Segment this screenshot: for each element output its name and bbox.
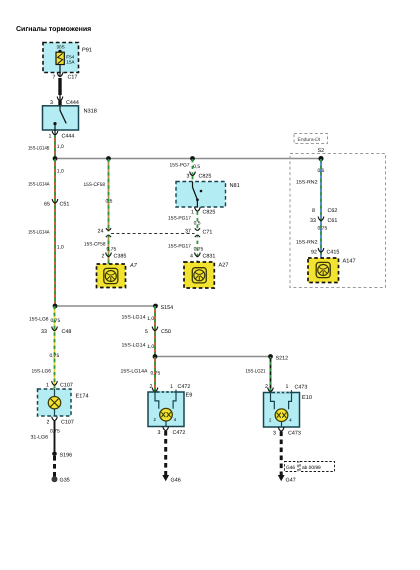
svg-text:0,5: 0,5 [193,164,200,170]
svg-text:1,0: 1,0 [147,344,154,350]
svg-text:33: 33 [41,329,47,335]
connector C107 pin 2 [47,417,74,426]
lamp cluster A27 [184,262,228,288]
note box G46 [285,462,299,472]
svg-text:1: 1 [170,384,173,390]
connector C17 pin 7 [53,73,78,81]
svg-text:C825: C825 [199,174,212,180]
svg-text:0,75: 0,75 [107,247,117,253]
svg-text:E174: E174 [76,394,89,400]
svg-text:1,0: 1,0 [147,316,154,322]
connector C385 pin 2 [102,253,127,260]
connector C71 pin 37 [185,228,212,237]
svg-text:C472: C472 [178,384,191,390]
svg-text:65: 65 [44,202,50,208]
connector C473 pins 2 1 [265,384,307,392]
connector C825 pin 1 [191,207,215,216]
svg-text:C48: C48 [62,329,72,335]
svg-text:15S-LG6: 15S-LG6 [32,369,52,375]
lamp bulb E10 [275,409,288,422]
svg-text:C50: C50 [161,329,171,335]
svg-text:0,75: 0,75 [50,429,60,435]
svg-text:N81: N81 [230,183,240,189]
bus wire 3 [155,356,271,358]
svg-text:Endura-DI: Endura-DI [298,137,321,143]
svg-text:15S-LG14A: 15S-LG14A [28,182,50,188]
svg-text:C473: C473 [295,385,308,391]
node junction PG7 bus1 [190,156,195,161]
connector C444 pin 3 [50,97,79,107]
svg-text:C17: C17 [68,75,78,81]
wire 15S-CF58 upper [84,159,113,232]
svg-text:G46: G46 [171,478,181,484]
node junction left bus2 [53,304,58,309]
node junction left bus1 [53,156,58,161]
svg-text:A7: A7 [129,263,138,269]
svg-text:C51: C51 [60,202,70,208]
svg-text:C831: C831 [203,254,216,260]
svg-text:E10: E10 [302,395,312,401]
svg-text:4: 4 [190,254,193,260]
lamp bulb E174 [48,397,60,409]
node S154 [153,304,173,311]
svg-text:8: 8 [312,208,315,214]
wire 31-LG6 [31,421,60,454]
switch N81 [176,182,240,208]
connector C62 pin 8 / C61 pin 33 [310,208,337,224]
fuse box P91 [43,43,92,73]
svg-text:24: 24 [98,229,104,235]
svg-text:N318: N318 [84,109,97,115]
svg-text:2: 2 [47,420,50,426]
connector C107 pin 1 [46,381,73,389]
wire 15S-PG17 lower [168,236,204,263]
node S196 [52,452,72,459]
svg-text:7: 7 [53,75,56,81]
svg-text:15S-PG7: 15S-PG7 [170,163,190,169]
wire dashed to G35 [53,456,56,477]
node S212 [268,354,288,361]
svg-text:C472: C472 [173,430,186,436]
svg-text:C385: C385 [114,254,127,260]
node junction left bus3 [153,354,158,359]
svg-text:S154: S154 [161,305,174,311]
svg-text:15S-LG21: 15S-LG21 [246,369,266,375]
svg-text:3: 3 [273,431,276,437]
connector C472 pin 3 [158,427,186,437]
svg-text:31-LG6: 31-LG6 [31,435,49,441]
svg-text:1: 1 [286,384,289,390]
lamp cluster A147 [308,258,356,283]
wire 15S-LG6 upper [29,306,60,389]
bus wire 2 [55,305,156,307]
svg-text:A147: A147 [343,259,356,265]
node S2 [318,148,325,161]
svg-text:Сигналы торможения: Сигналы торможения [16,26,91,33]
svg-text:2: 2 [150,384,153,390]
svg-text:30S: 30S [57,45,65,50]
connector C472 pins 2 1 [150,384,191,392]
svg-text:0,5: 0,5 [318,168,325,174]
svg-text:1,0: 1,0 [57,245,64,251]
connector C473 pin 3 [273,427,301,437]
connector C71 pin 24 [98,228,112,237]
svg-text:G47: G47 [286,478,296,484]
wire fuse to C17 [59,65,61,77]
svg-text:15S-LG14B: 15S-LG14B [28,146,50,152]
wire 15S-RN2 [296,159,327,258]
brake lamp E174 [38,389,89,416]
svg-text:0,5: 0,5 [106,199,113,205]
svg-text:S212: S212 [276,356,289,362]
svg-text:C107: C107 [61,420,74,426]
svg-text:C61: C61 [328,218,338,224]
ground G47 [278,475,296,484]
svg-text:5: 5 [145,329,148,335]
wire dashed to G47 [280,432,283,476]
svg-text:0,75: 0,75 [318,226,328,232]
svg-text:15S-LG14A: 15S-LG14A [121,369,149,375]
svg-text:G46: G46 [286,465,295,471]
stop lamp E10 [264,390,312,427]
svg-text:C71: C71 [203,230,213,236]
ground G35 [52,476,70,483]
svg-text:0,5: 0,5 [194,221,201,227]
wire 15S-LG21 [246,357,271,391]
svg-text:0,75: 0,75 [51,318,61,324]
bus wire 1 [55,158,321,160]
svg-text:G35: G35 [60,478,70,484]
wire thick black C17 to C444 [58,78,61,100]
wire thick black C444 to N318 [58,101,61,107]
lamp cluster A7 [97,263,138,288]
connector C444 pin 1 [49,130,75,140]
svg-text:C444: C444 [62,134,75,140]
wire 15S-CF58 lower [84,236,116,265]
svg-text:S196: S196 [60,453,73,459]
connector C831 pin 4 [190,253,215,260]
wire stub C825 to N81 [192,176,194,182]
lamp bulb E9 [160,408,173,421]
connector C415 pin 92 [311,248,339,256]
svg-text:33: 33 [310,218,316,224]
svg-text:15S-PG17: 15S-PG17 [168,244,191,250]
svg-text:E9: E9 [186,393,193,399]
node junction CF58 bus1 [106,156,111,161]
svg-text:3: 3 [187,174,190,180]
svg-text:3: 3 [158,430,161,436]
svg-text:A27: A27 [219,263,229,269]
connector C50 pin 5 [145,327,171,336]
fuse F54 15A [56,52,75,64]
svg-text:2: 2 [265,384,268,390]
svg-text:15S-CF58: 15S-CF58 [84,242,106,248]
svg-text:0,75: 0,75 [50,353,60,359]
wire dashed C71 link [111,232,195,234]
connector C48 pin 33 [41,327,71,336]
brake pedal switch N318 [43,106,97,130]
wire dashed to G46 [164,431,167,475]
svg-text:C62: C62 [328,208,338,214]
svg-text:15S-RN2: 15S-RN2 [296,180,318,186]
note box ab 00/99 [300,462,335,472]
svg-text:1: 1 [191,210,194,216]
svg-text:15S-LG14: 15S-LG14 [122,343,146,349]
svg-text:1: 1 [46,383,49,389]
node fuse top 30S [58,50,61,53]
svg-text:15S-CF58: 15S-CF58 [84,182,106,188]
svg-text:1,0: 1,0 [57,169,64,175]
svg-text:15A: 15A [66,60,75,65]
wire 15S-PG7 [170,159,201,175]
svg-text:C107: C107 [60,383,73,389]
ground G46 [162,475,180,484]
svg-text:C415: C415 [327,250,340,256]
wire 15S-LG14A to E9 [121,357,161,391]
connector C825 pin 3 [187,172,212,180]
svg-text:C473: C473 [288,431,301,437]
wire 15S-LG14A upper [28,159,64,306]
svg-text:15S-LG14A: 15S-LG14A [28,230,50,236]
svg-text:15S-PG17: 15S-PG17 [168,216,191,222]
svg-text:1: 1 [49,134,52,140]
svg-text:0,75: 0,75 [194,247,204,253]
svg-text:P91: P91 [82,48,92,54]
svg-text:ab 00/99: ab 00/99 [302,465,321,471]
svg-text:37: 37 [185,229,191,235]
svg-text:15S-LG6: 15S-LG6 [29,317,49,323]
svg-text:15S-RN2: 15S-RN2 [296,240,318,246]
wire 15S-LG14B [28,136,64,159]
connector C51 pin 65 [44,199,69,208]
svg-text:15S-LG14: 15S-LG14 [122,315,146,321]
Endura-DI region box [290,154,386,288]
svg-text:1,0: 1,0 [57,144,64,150]
svg-text:92: 92 [311,250,317,256]
svg-text:2: 2 [102,254,105,260]
wire 15S-LG14 [122,306,156,356]
Endura-DI label box [294,134,328,144]
svg-text:C825: C825 [203,210,216,216]
wire 15S-PG17 upper [168,212,201,231]
stop lamp E9 [148,390,192,427]
svg-text:0,75: 0,75 [151,371,161,377]
